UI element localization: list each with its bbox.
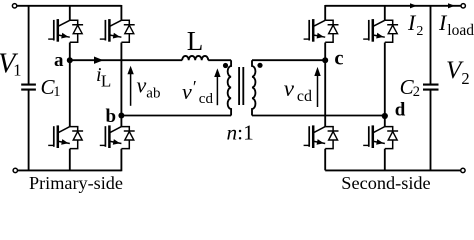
transformer core [239, 67, 243, 105]
wire: C1 branch lower [28, 91, 30, 171]
svg-text:d: d [395, 100, 406, 121]
svg-text:v: v [137, 73, 147, 98]
wire: bottom rail primary [18, 169, 122, 171]
svg-text:L: L [101, 72, 111, 91]
node c dot [322, 57, 328, 63]
voltage arrow v_ab [130, 74, 132, 106]
capacitor C2 [423, 85, 439, 90]
svg-text:v: v [284, 76, 295, 101]
svg-text:2: 2 [461, 69, 469, 88]
svg-text:v: v [182, 79, 192, 104]
transistor Q4 [100, 125, 135, 148]
wire: transformer to node c [252, 59, 325, 61]
svg-text:n:1: n:1 [227, 120, 254, 144]
svg-text:Second-side: Second-side [341, 173, 430, 193]
inductor L [182, 56, 208, 60]
svg-text:1: 1 [13, 61, 21, 80]
svg-text:1: 1 [53, 84, 60, 100]
svg-text:cd: cd [199, 91, 214, 107]
wire: top rail primary [17, 5, 122, 7]
bottom-right terminal [461, 168, 465, 172]
wire: leg2 [120, 5, 122, 171]
svg-text:ab: ab [146, 86, 160, 102]
transformer secondary winding [252, 60, 255, 115]
svg-text:b: b [106, 106, 117, 127]
transistor Q3 [100, 19, 135, 42]
wire: top rail secondary [325, 5, 461, 7]
svg-text:′: ′ [193, 77, 197, 97]
wire: C1 branch upper [28, 5, 30, 84]
transistor Q7 [363, 19, 398, 42]
transistor Q6 [304, 125, 339, 148]
svg-text:c: c [334, 47, 343, 69]
transformer dot secondary [257, 63, 262, 68]
wire: leg4 [384, 5, 386, 170]
wire: node b to transformer [121, 115, 231, 117]
wire: node a to inductor [70, 59, 182, 61]
transistor Q1 [48, 19, 83, 42]
svg-text:Primary-side: Primary-side [29, 173, 123, 193]
svg-text:load: load [447, 22, 474, 39]
wire: inductor to transformer [208, 59, 231, 61]
svg-text:L: L [187, 26, 204, 56]
top-right terminal [461, 4, 465, 8]
wire: C2 branch lower [430, 91, 432, 171]
transistor Q5 [304, 19, 339, 42]
node a dot [67, 57, 73, 63]
transformer dot primary [223, 63, 228, 68]
node d dot [382, 113, 388, 119]
svg-text:cd: cd [297, 88, 312, 105]
svg-text:2: 2 [416, 24, 423, 39]
wire: leg3 [324, 5, 326, 170]
bottom-left terminal [13, 168, 17, 172]
node b dot [118, 113, 124, 119]
wire: leg1 [69, 5, 71, 170]
transistor Q2 [48, 125, 83, 148]
top-left terminal [12, 4, 16, 8]
svg-text:2: 2 [413, 84, 420, 100]
current arrow Iload [448, 3, 455, 8]
wire: C2 branch upper [430, 5, 432, 84]
voltage arrow v_cd [317, 76, 319, 108]
capacitor C1 [21, 85, 36, 90]
transformer primary winding [228, 60, 231, 115]
wire: transformer to node d [252, 115, 385, 117]
wire: bottom rail secondary [325, 169, 460, 171]
svg-text:a: a [54, 50, 64, 71]
current arrow I2 [410, 3, 417, 8]
current arrow iL [94, 57, 103, 64]
voltage arrow v'_cd [216, 77, 218, 106]
transistor Q8 [363, 125, 398, 148]
